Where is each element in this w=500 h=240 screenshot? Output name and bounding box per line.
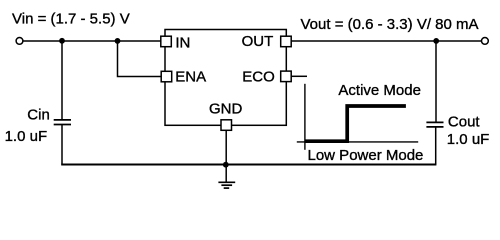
pin GND — [221, 120, 232, 131]
wire Cout bottom — [435, 127, 437, 165]
junction Cout tap — [433, 38, 439, 44]
svg-text:Active Mode: Active Mode — [338, 82, 421, 99]
input terminal — [16, 38, 23, 45]
wire OUT to output terminal — [291, 40, 481, 42]
wire ECO stub — [291, 75, 307, 77]
regulator U1 body — [165, 30, 286, 126]
pin ENA — [161, 71, 172, 82]
svg-text:IN: IN — [175, 35, 190, 52]
wire Cout top — [435, 41, 437, 122]
pin ECO — [281, 71, 292, 82]
svg-text:Vout = (0.6 - 3.3) V/ 80 mA: Vout = (0.6 - 3.3) V/ 80 mA — [301, 16, 479, 33]
svg-text:Low Power Mode: Low Power Mode — [308, 147, 424, 164]
svg-text:1.0 uF: 1.0 uF — [447, 131, 490, 148]
pin IN — [161, 36, 172, 47]
svg-text:ENA: ENA — [175, 68, 206, 85]
capacitor Cin — [54, 120, 71, 125]
wire Cin top — [61, 41, 63, 120]
svg-text:Vin = (1.7 - 5.5) V: Vin = (1.7 - 5.5) V — [12, 11, 130, 28]
wire input to IN pin — [23, 40, 161, 42]
capacitor Cout — [426, 122, 443, 127]
svg-text:OUT: OUT — [242, 33, 274, 50]
ECO waveform trace — [305, 106, 406, 141]
wire junction to ENA pin — [118, 41, 162, 77]
pin OUT — [281, 36, 292, 47]
svg-text:1.0 uF: 1.0 uF — [5, 128, 48, 145]
output terminal — [482, 38, 489, 45]
wire Cin bottom — [61, 125, 63, 165]
svg-text:Cin: Cin — [27, 106, 50, 123]
ground — [218, 165, 235, 189]
svg-text:Cout: Cout — [448, 113, 481, 130]
junction Cin tap — [59, 38, 65, 44]
junction ENA tap — [115, 38, 121, 44]
svg-text:GND: GND — [209, 100, 243, 117]
svg-text:ECO: ECO — [242, 68, 275, 85]
junction ground — [223, 162, 229, 168]
wire ground rail — [61, 164, 436, 166]
wire GND pin to rail — [225, 130, 227, 164]
ECO waveform vertical axis — [304, 84, 306, 150]
ECO waveform horizontal axis — [297, 141, 418, 143]
